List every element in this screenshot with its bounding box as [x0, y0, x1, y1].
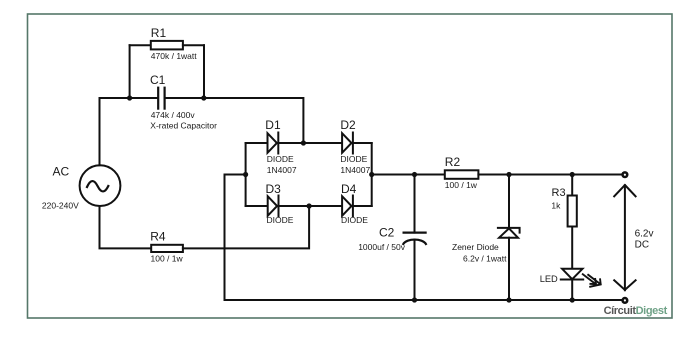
svg-text:R4: R4	[150, 229, 166, 243]
wire R3 top	[571, 175, 573, 196]
LED emission arrows	[583, 274, 601, 287]
terminal negative output	[621, 297, 628, 304]
svg-text:D2: D2	[340, 118, 356, 132]
svg-text:CírcuitDigest: CírcuitDigest	[604, 305, 668, 317]
junction node bridge top input	[301, 140, 306, 145]
resistor R4	[151, 245, 183, 252]
svg-text:R1: R1	[151, 26, 167, 40]
wire LED bottom	[571, 280, 573, 301]
junction node C1 right	[201, 95, 206, 100]
output voltage arrow	[614, 185, 635, 290]
capacitor C1	[158, 88, 164, 109]
junction node C2 bottom	[412, 297, 417, 302]
wire AC bottom to R4	[100, 206, 152, 248]
resistor R1	[151, 41, 183, 50]
capacitor C2	[403, 233, 426, 244]
diode D4	[342, 196, 353, 217]
svg-text:6.2v: 6.2v	[635, 229, 654, 240]
svg-text:DIODE: DIODE	[267, 154, 294, 164]
svg-text:C1: C1	[150, 73, 166, 87]
wire bridge top row left	[246, 142, 268, 144]
svg-text:R3: R3	[552, 187, 566, 199]
diode D3	[268, 196, 279, 217]
wire bridge left vertical	[245, 143, 247, 206]
svg-text:AC: AC	[53, 165, 70, 179]
wire positive rail	[372, 174, 445, 176]
svg-text:100 / 1w: 100 / 1w	[151, 254, 184, 264]
svg-text:DC: DC	[635, 239, 649, 250]
wire bridge negative to bottom rail	[225, 175, 246, 301]
svg-text:D3: D3	[266, 182, 282, 196]
svg-text:Zener Diode: Zener Diode	[452, 242, 499, 252]
wire D3 to D4	[279, 205, 343, 207]
junction node LED bottom	[570, 297, 575, 302]
junction node zener bottom	[506, 297, 511, 302]
LED D5	[561, 269, 583, 280]
wire D1 to D2	[278, 142, 342, 144]
wire R3 to LED	[571, 227, 573, 269]
svg-text:X-rated Capacitor: X-rated Capacitor	[150, 120, 217, 130]
wire zener bottom	[508, 238, 510, 300]
junction node zener top	[506, 172, 511, 177]
AC source V1	[80, 165, 121, 206]
diode D2	[342, 133, 353, 154]
junction node R3 top	[570, 172, 575, 177]
diode D1	[268, 133, 279, 154]
wire AC top to C1	[100, 98, 158, 165]
svg-text:C2: C2	[379, 226, 395, 240]
svg-text:1k: 1k	[551, 200, 561, 210]
wire R4 to bridge bottom input	[183, 206, 309, 248]
junction node C2 top	[412, 172, 417, 177]
wire D2 to right vertical	[353, 142, 372, 144]
svg-text:LED: LED	[540, 274, 558, 284]
wire D4 to right vertical	[353, 205, 372, 207]
wire zener top	[508, 175, 510, 228]
resistor R2	[445, 170, 479, 179]
terminal positive output	[621, 171, 628, 178]
svg-text:DIODE: DIODE	[341, 215, 368, 225]
svg-text:D4: D4	[341, 182, 357, 196]
wire bridge right vertical	[371, 143, 373, 206]
svg-text:DIODE: DIODE	[267, 215, 294, 225]
wire C1 right to bridge top input	[166, 98, 304, 143]
svg-text:1N4007: 1N4007	[340, 165, 370, 175]
zener diode ZD1	[498, 228, 520, 238]
svg-text:R2: R2	[445, 155, 461, 169]
junction node C1 left	[127, 95, 132, 100]
resistor R3	[568, 196, 577, 227]
junction node bridge negative	[243, 172, 248, 177]
svg-text:D1: D1	[265, 118, 281, 132]
svg-text:474k / 400v: 474k / 400v	[151, 110, 196, 120]
wire R2 to R3 junction	[478, 174, 622, 176]
svg-text:220-240V: 220-240V	[42, 200, 79, 210]
wire R1 left	[130, 44, 151, 46]
wire R1 right	[183, 44, 204, 46]
svg-text:1000uf / 50v: 1000uf / 50v	[358, 242, 406, 252]
svg-text:6.2v / 1watt: 6.2v / 1watt	[463, 254, 507, 264]
wire bridge bottom row left	[246, 205, 268, 207]
svg-text:DIODE: DIODE	[340, 154, 367, 164]
junction node bridge positive	[369, 172, 374, 177]
svg-text:1N4007: 1N4007	[267, 165, 297, 175]
wire bottom rail	[225, 299, 623, 301]
wire C2 top	[414, 175, 416, 233]
wire R1 left leg	[129, 45, 131, 98]
junction node bridge bottom input	[307, 203, 312, 208]
svg-text:100 / 1w: 100 / 1w	[445, 180, 478, 190]
wire C2 bottom	[414, 240, 416, 300]
wire R1 right leg	[203, 45, 205, 98]
svg-text:470k / 1watt: 470k / 1watt	[151, 51, 197, 61]
